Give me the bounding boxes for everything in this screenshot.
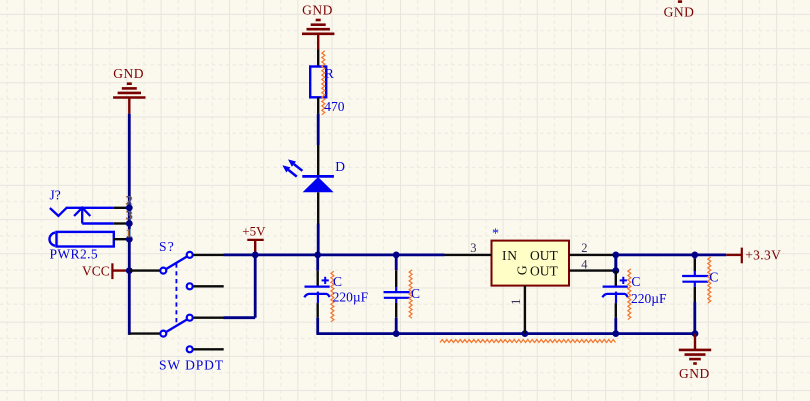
- svg-text:+5V: +5V: [242, 224, 266, 239]
- svg-text:2: 2: [126, 194, 132, 208]
- svg-text:C: C: [631, 274, 640, 289]
- svg-text:3: 3: [470, 241, 476, 255]
- svg-text:C: C: [411, 286, 420, 301]
- svg-text:R: R: [325, 66, 334, 81]
- svg-text:G: G: [514, 265, 529, 275]
- svg-text:GND: GND: [679, 366, 710, 381]
- svg-text:1: 1: [126, 226, 132, 240]
- svg-text:VCC: VCC: [82, 264, 110, 279]
- svg-text:2: 2: [581, 241, 587, 255]
- svg-text:C: C: [709, 269, 718, 284]
- svg-text:S?: S?: [159, 239, 175, 254]
- svg-text:GND: GND: [113, 66, 144, 81]
- svg-text:OUT: OUT: [530, 263, 558, 278]
- svg-text:GND: GND: [664, 4, 695, 19]
- svg-text:IN: IN: [502, 248, 518, 263]
- svg-text:3: 3: [126, 209, 132, 223]
- svg-text:470: 470: [324, 99, 345, 114]
- svg-text:C: C: [333, 274, 342, 289]
- svg-text:220µF: 220µF: [631, 291, 667, 306]
- svg-text:GND: GND: [302, 3, 333, 18]
- svg-text:J?: J?: [50, 188, 61, 203]
- svg-text:220µF: 220µF: [333, 289, 369, 304]
- svg-text:+3.3V: +3.3V: [745, 247, 781, 262]
- svg-text:*: *: [492, 227, 499, 242]
- svg-text:PWR2.5: PWR2.5: [50, 247, 99, 262]
- svg-text:1: 1: [509, 299, 523, 305]
- svg-text:OUT: OUT: [530, 248, 558, 263]
- svg-text:SW DPDT: SW DPDT: [159, 357, 224, 372]
- svg-text:4: 4: [581, 258, 588, 272]
- svg-text:D: D: [335, 159, 345, 174]
